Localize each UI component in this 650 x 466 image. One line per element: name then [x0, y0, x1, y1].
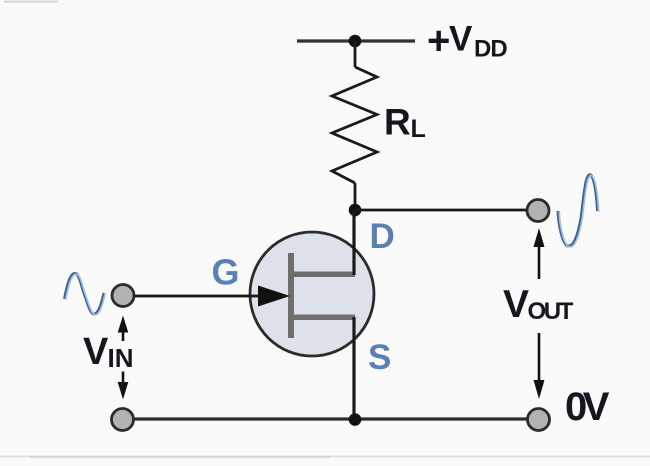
wire: input to gate: [134, 295, 262, 298]
drain bar: [291, 272, 355, 278]
Vout down arrow: [534, 333, 545, 399]
label VOUT: [503, 283, 574, 326]
svg-text:0V: 0V: [565, 385, 610, 429]
source bar: [291, 315, 355, 321]
svg-text:L: L: [411, 115, 426, 143]
node: source junction on rail: [349, 413, 362, 426]
input sine waveform: [65, 273, 106, 315]
Vin down arrow: [118, 372, 129, 400]
transistor Q1 MOSFET body: [250, 232, 374, 356]
scan artifact top-left: [4, 1, 58, 3]
output sine waveform: [558, 175, 599, 247]
svg-text:S: S: [368, 338, 391, 377]
wire: drain node to output terminal: [355, 209, 527, 212]
label +VDD: [427, 19, 507, 63]
svg-text:V: V: [503, 283, 529, 326]
wire: VDD to resistor: [354, 41, 357, 67]
wire: resistor to drain node: [354, 183, 357, 210]
Vin up arrow: [118, 316, 129, 342]
svg-text:D: D: [370, 217, 395, 256]
gate arrowhead: [258, 286, 290, 307]
scan artifact bottom line: [0, 456, 650, 458]
svg-text:V: V: [83, 331, 109, 373]
terminal: input: [112, 285, 134, 307]
wire: drain node into transistor: [352, 210, 355, 275]
label VIN: [83, 331, 134, 373]
label RL: [384, 102, 426, 144]
wire: bottom rail: [133, 417, 527, 420]
node: VDD junction: [349, 35, 362, 48]
wire: +VDD rail: [297, 39, 415, 42]
svg-text:OUT: OUT: [528, 298, 574, 325]
svg-text:R: R: [384, 102, 411, 143]
svg-text:IN: IN: [108, 343, 134, 373]
svg-text:+: +: [427, 19, 450, 63]
svg-text:G: G: [212, 252, 240, 293]
svg-text:DD: DD: [474, 36, 507, 63]
resistor RL: [332, 67, 377, 183]
node: drain junction: [349, 204, 362, 217]
terminal: output: [527, 200, 549, 222]
terminal: bottom-right: [528, 409, 550, 431]
Vout up arrow: [534, 228, 545, 279]
svg-text:V: V: [449, 20, 473, 59]
terminal: bottom-left: [112, 409, 134, 431]
wire: source to bottom rail: [352, 317, 355, 419]
gate bar: [288, 253, 294, 338]
